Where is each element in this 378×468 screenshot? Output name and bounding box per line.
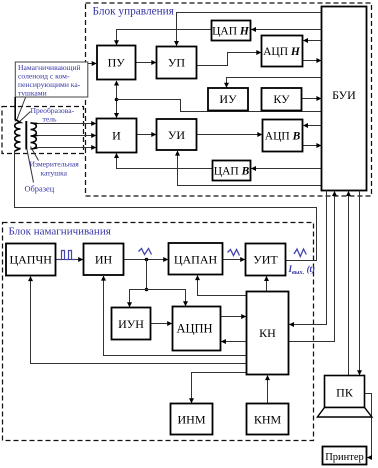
wire БУИ to АЦП Н — [304, 40, 322, 42]
block УП — [157, 47, 197, 79]
computer ПК monitor — [325, 376, 365, 408]
svg-text:ИУ: ИУ — [219, 92, 237, 106]
wire ИУН to АЦПН — [151, 323, 172, 325]
triangle wave symbol 2 — [228, 250, 240, 256]
svg-text:ИУН: ИУН — [118, 317, 144, 331]
triangle wave symbol 3 — [294, 249, 306, 257]
wire ИН junction down — [146, 260, 148, 290]
svg-text:АЦП В: АЦП В — [265, 131, 301, 143]
wire ЦАП В to И and УИ bottoms — [117, 154, 213, 169]
svg-text:И: И — [112, 129, 121, 143]
dashed box Блок управления — [86, 3, 372, 196]
block АЦПН — [173, 307, 221, 351]
junction dot lower — [145, 288, 149, 292]
wire АЦП Н to БУИ — [303, 60, 321, 62]
svg-text:УИ: УИ — [168, 128, 185, 142]
svg-text:Iвых. (t): Iвых. (t) — [288, 264, 316, 276]
block ЦАПЧН — [6, 244, 56, 276]
junction dot ИН output — [145, 258, 149, 262]
wire УИТ output to solenoid — [15, 151, 317, 261]
transformer left coil (solenoid) — [15, 97, 21, 151]
wire УП to АЦП Н — [197, 53, 261, 66]
block КНМ — [247, 404, 289, 435]
block АЦП Н — [262, 36, 303, 67]
block Принтер — [323, 447, 367, 465]
svg-text:ЦАПАН: ЦАПАН — [174, 253, 218, 267]
wire КН to ЦАПАН bottom — [198, 276, 247, 296]
wire БУИ to ЦАП Н — [252, 29, 322, 31]
svg-text:КНМ: КНМ — [254, 413, 282, 427]
svg-text:Измерительная: Измерительная — [30, 160, 80, 169]
wire ЦАП Н to ПУ top — [117, 30, 212, 45]
block КН — [247, 292, 289, 375]
wire ЦАПАН to УИТ — [223, 259, 245, 261]
pointer from label box to coil — [17, 98, 26, 121]
block ИНМ — [171, 404, 213, 435]
wire coil to И line1 — [38, 123, 96, 125]
solenoid label box — [15, 62, 88, 97]
svg-text:ЦАП Н: ЦАП Н — [212, 26, 250, 38]
svg-text:ЦАП В: ЦАП В — [214, 166, 250, 178]
wire КН to ИН bottom — [104, 276, 247, 355]
transformer right coil (measuring) — [31, 123, 38, 149]
wire КНМ to КН — [267, 376, 269, 404]
block УИ — [157, 119, 197, 150]
wire ПУ И vertical both arrows — [116, 81, 118, 118]
triangle wave symbol 1 — [139, 249, 152, 255]
wire ПК to БУИ — [348, 192, 350, 376]
svg-text:КН: КН — [259, 326, 276, 340]
wire И to УИ — [137, 134, 156, 136]
wire БУИ to ИУ — [227, 78, 322, 88]
svg-text:КУ: КУ — [273, 92, 290, 106]
wire КН to АЦПН — [221, 341, 246, 343]
pointer Образец — [27, 149, 34, 183]
block ИН — [84, 244, 124, 276]
wire ПК to Принтер — [365, 394, 372, 458]
wire БУИ to КН — [290, 191, 327, 325]
wire КН to УИТ bottom — [266, 277, 268, 292]
svg-text:тель: тель — [43, 115, 57, 124]
svg-text:Принтер: Принтер — [325, 452, 364, 463]
wire ЦАПЧН to ИН — [56, 259, 83, 261]
wire ПУ to УП — [136, 62, 156, 64]
wire КН to БУИ — [289, 192, 335, 342]
svg-text:ПК: ПК — [336, 386, 354, 400]
computer ПК base trapezoid — [317, 408, 372, 418]
svg-text:ИНМ: ИНМ — [177, 413, 205, 427]
svg-text:Образец: Образец — [25, 185, 55, 194]
wire solenoid label box to ПУ — [88, 63, 96, 65]
dashed box Блок намагничивания — [3, 223, 314, 441]
block УИТ — [246, 244, 286, 276]
wire КН to ИНМ — [192, 373, 247, 403]
svg-text:БУИ: БУИ — [332, 88, 356, 102]
svg-text:УП: УП — [168, 56, 185, 70]
wire БУИ to ЦАП В — [252, 168, 322, 170]
pointer Преобразователь — [19, 112, 31, 123]
wire to АЦПН top — [147, 290, 186, 306]
wire coil to И line3 — [38, 147, 96, 149]
block ИУН — [112, 308, 151, 340]
svg-text:УИТ: УИТ — [253, 253, 278, 267]
wire АЦПН to КН — [221, 316, 246, 318]
wire ИН to ЦАПАН — [124, 259, 168, 261]
svg-text:ИН: ИН — [95, 253, 113, 267]
svg-text:ПУ: ПУ — [108, 56, 126, 70]
svg-text:Блок намагничивания: Блок намагничивания — [9, 226, 111, 238]
svg-text:АЦП Н: АЦП Н — [263, 46, 301, 58]
pulse symbol — [58, 251, 76, 260]
svg-text:катушка: катушка — [41, 169, 68, 178]
pointer Измерительная — [31, 147, 39, 161]
wire to ИУН top — [130, 290, 147, 307]
transformer core — [25, 121, 27, 150]
junction dot — [115, 98, 119, 102]
block ЦАП В — [213, 161, 251, 181]
dashed box Преобразователь enclosure — [2, 107, 84, 154]
wire БУИ to УП top — [177, 13, 322, 46]
block И — [97, 119, 137, 153]
block ЦАПАН — [169, 243, 223, 275]
block ЦАП Н — [212, 21, 251, 41]
block ПУ — [97, 46, 136, 80]
wire БУИ to ПК — [359, 191, 361, 375]
wire КУ to БУИ — [302, 98, 321, 100]
wire БУИ to АЦП В — [304, 125, 322, 127]
wire coil to И line2 — [38, 135, 96, 137]
block АЦП В — [263, 120, 303, 152]
svg-text:АЦПН: АЦПН — [176, 322, 212, 336]
wire И junction to БУИ — [117, 100, 322, 112]
wire label box left edge down to coil — [14, 97, 16, 122]
block ИУ — [208, 88, 248, 111]
svg-text:Блок управления: Блок управления — [93, 5, 174, 17]
wire КН to ЦАПЧН bottom — [31, 277, 247, 364]
svg-text:тушками: тушками — [18, 89, 47, 98]
block БУИ — [322, 7, 367, 191]
wire АЦП В to БУИ — [303, 145, 321, 147]
svg-text:ЦАПЧН: ЦАПЧН — [9, 253, 52, 267]
wire УИ to АЦП В — [197, 134, 262, 136]
block КУ — [262, 88, 302, 111]
wire БУИ to УИ bottom — [178, 151, 322, 185]
